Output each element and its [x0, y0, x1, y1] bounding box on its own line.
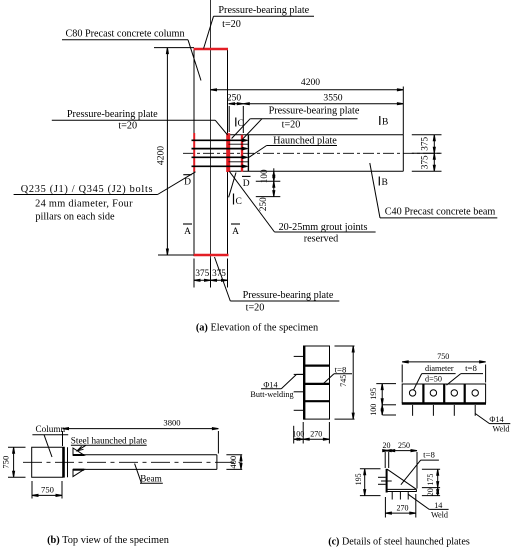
section mark C top	[235, 118, 237, 127]
svg-text:D: D	[184, 178, 191, 188]
(c3) triangle left edge (thick)	[386, 469, 388, 493]
svg-text:reserved: reserved	[304, 233, 339, 244]
(c2) dimension 195 left	[376, 383, 396, 385]
dimension 375 right upper	[433, 135, 435, 154]
svg-text:(a) Elevation of the specimen: (a) Elevation of the specimen	[196, 323, 319, 334]
(b) column square outline	[32, 447, 64, 477]
leader bottom label	[215, 257, 231, 301]
pressure-bearing plate top (red)	[194, 48, 229, 51]
svg-text:24 mm diameter, Four: 24 mm diameter, Four	[35, 198, 133, 209]
dimension 375 bottom left	[194, 279, 211, 281]
svg-text:pillars on each side: pillars on each side	[35, 211, 115, 222]
(c1) dimension 100 bottom	[293, 426, 295, 444]
(c1) leader t=8	[324, 374, 335, 384]
column left edge	[193, 49, 195, 255]
(b) leader steel haunched plate	[78, 445, 86, 450]
svg-text:Φ14: Φ14	[489, 415, 503, 424]
tick bottom left dim	[158, 254, 194, 256]
svg-text:375: 375	[195, 268, 209, 278]
(c3) triangle bottom flange (double line)	[386, 488, 416, 490]
(c3) triangle hypotenuse	[387, 469, 416, 489]
svg-text:20-25mm grout joints: 20-25mm grout joints	[279, 222, 368, 233]
section C cut stroke bottom (diagonal)	[229, 173, 236, 198]
(c3) dimension 20 right	[422, 495, 440, 497]
(b) beam centerline dash-dot	[23, 461, 240, 463]
column right edge	[227, 49, 229, 255]
svg-text:750: 750	[41, 485, 54, 495]
extension ticks right 375 dims	[412, 134, 442, 136]
svg-text:100: 100	[292, 430, 304, 439]
bolt anchor plate left (red)	[193, 133, 195, 172]
(b) haunched plate bottom (triangle)	[73, 469, 84, 476]
(b) dimension 3800	[62, 431, 64, 446]
section mark B bottom	[378, 177, 380, 186]
svg-text:195: 195	[369, 388, 378, 400]
section C cut stroke top (diagonal)	[243, 119, 262, 139]
svg-text:375: 375	[419, 137, 429, 151]
(c3) weld ticks left	[378, 476, 386, 478]
tick top left dim	[154, 47, 194, 49]
(c3) leader t=8	[401, 460, 421, 485]
svg-text:A: A	[232, 227, 239, 237]
(c3) weld legs below	[391, 492, 393, 500]
(b) leader column	[44, 435, 52, 457]
leader haunched plate	[249, 146, 267, 158]
svg-text:3800: 3800	[163, 418, 180, 428]
svg-text:Pressure-bearing plate: Pressure-bearing plate	[269, 105, 360, 116]
svg-text:Q235 (J1) / Q345 (J2) bolts: Q235 (J1) / Q345 (J2) bolts	[21, 184, 153, 195]
svg-text:20: 20	[383, 441, 391, 450]
leader bolts label	[158, 172, 196, 195]
(b) column end plate (thick)	[62, 447, 65, 478]
svg-text:diameter: diameter	[425, 364, 454, 373]
(b) beam bottom edge	[73, 468, 217, 470]
svg-text:B: B	[382, 178, 388, 188]
svg-text:100: 100	[259, 169, 269, 183]
(c2) bolt hole 4	[472, 390, 478, 396]
dimension 100 (below beam right of joint)	[256, 180, 280, 182]
svg-text:(b) Top view of the specimen: (b) Top view of the specimen	[47, 535, 170, 546]
svg-text:t=20: t=20	[246, 303, 265, 314]
(b) beam right end	[216, 455, 218, 470]
beam top edge	[228, 134, 403, 136]
svg-text:195: 195	[354, 473, 363, 485]
(c1) butt-weld line (thick left edge)	[303, 346, 305, 420]
svg-text:B: B	[382, 118, 388, 128]
(c1) plate divider 1	[304, 365, 329, 367]
dimension 4200 (left vertical)	[166, 48, 168, 255]
svg-text:250: 250	[258, 197, 268, 211]
beam centerline (dash-dot)	[183, 152, 442, 154]
(c2) divider 1	[422, 384, 424, 403]
grout joint line lower	[229, 161, 249, 163]
(b) dimension 400 right	[226, 454, 242, 456]
svg-text:C80 Precast concrete column: C80 Precast concrete column	[65, 28, 184, 39]
bolt rod 3	[192, 156, 247, 158]
svg-text:250: 250	[227, 92, 242, 103]
bolt rod 4	[192, 165, 247, 167]
svg-text:750: 750	[437, 352, 449, 361]
svg-text:375: 375	[419, 155, 429, 169]
section mark A right	[231, 223, 240, 225]
(b) haunched plate top (triangle)	[73, 448, 84, 455]
beam right end	[402, 135, 404, 172]
svg-text:C: C	[238, 119, 244, 129]
svg-text:Weld: Weld	[492, 424, 509, 433]
leader C80 label	[188, 40, 201, 81]
(c1) plate rectangle	[304, 346, 329, 419]
svg-text:100: 100	[369, 404, 378, 416]
svg-text:Pressure-bearing plate: Pressure-bearing plate	[243, 290, 334, 301]
svg-text:14: 14	[434, 501, 442, 510]
(c3) dimension 195 left	[360, 468, 381, 470]
(c1) leader butt-welding	[281, 374, 296, 388]
(b) dimension 750 left	[8, 446, 26, 448]
svg-text:Pressure-bearing plate: Pressure-bearing plate	[218, 5, 309, 16]
section mark D right	[242, 175, 251, 177]
(c2) leader t=8	[447, 374, 461, 386]
(c1) plate divider 2	[304, 383, 329, 385]
svg-text:A: A	[184, 227, 191, 237]
dimension 375 right lower	[433, 153, 435, 171]
leader C40 label	[370, 163, 380, 218]
(b) dimension 750 bottom	[31, 481, 33, 499]
svg-text:400: 400	[228, 456, 238, 469]
(b) beam top edge	[73, 454, 217, 456]
(c3) dimension 270 bottom	[384, 497, 386, 518]
svg-text:t=20: t=20	[222, 19, 241, 30]
(c2) leader diameter	[414, 374, 422, 390]
svg-text:4200: 4200	[156, 146, 167, 165]
dimension 4200 (top)	[211, 89, 404, 91]
dimension 375 bottom right	[211, 279, 228, 281]
beam bottom edge	[228, 170, 403, 172]
(c2) bolt hole 2	[430, 390, 436, 396]
svg-text:4200: 4200	[301, 77, 320, 88]
extension lines top dims	[228, 106, 230, 132]
svg-text:3550: 3550	[323, 93, 342, 104]
svg-text:Beam: Beam	[140, 474, 161, 484]
svg-text:C40 Precast concrete beam: C40 Precast concrete beam	[385, 206, 496, 217]
pressure-bearing plate on column face (red)	[226, 133, 230, 172]
pressure-bearing plate at beam end (red)	[241, 135, 243, 172]
dimension 3550 (top)	[243, 103, 403, 105]
pressure-bearing plate bottom (red)	[194, 254, 229, 257]
(c2) dimension 100 left	[383, 414, 397, 416]
svg-text:Weld: Weld	[431, 511, 448, 520]
(c1) dimension 270 bottom	[303, 438, 329, 440]
svg-text:d=50: d=50	[425, 375, 442, 384]
svg-text:745: 745	[339, 375, 348, 387]
svg-text:20: 20	[426, 488, 435, 496]
svg-text:Steel haunched plate: Steel haunched plate	[71, 436, 147, 446]
(c1) plate divider 3	[304, 400, 329, 402]
svg-text:Pressure-bearing plate: Pressure-bearing plate	[67, 109, 158, 120]
svg-text:270: 270	[310, 429, 322, 438]
(b) plate outer face line	[67, 447, 69, 477]
section mark D left	[183, 174, 191, 176]
haunched end plate (black)	[247, 135, 249, 172]
(b) leader beam	[135, 464, 142, 484]
svg-text:t=20: t=20	[118, 120, 137, 131]
leader left label	[215, 120, 227, 135]
(c3) leader 14 weld	[408, 494, 429, 509]
grout joint line upper	[229, 143, 249, 145]
(c2) weld line (thick bottom)	[402, 402, 486, 404]
svg-text:D: D	[243, 179, 250, 189]
dimension 250 (below beam right of joint)	[256, 196, 280, 198]
svg-text:t=20: t=20	[282, 120, 301, 131]
svg-text:(c) Details of steel haunched: (c) Details of steel haunched plates	[328, 537, 470, 548]
(c3) dimension 175 right	[422, 468, 440, 470]
section mark A left	[183, 223, 192, 225]
section mark B top	[379, 116, 381, 125]
svg-text:t=8: t=8	[465, 363, 477, 373]
svg-text:t=8: t=8	[335, 365, 347, 375]
bolt rod 2	[192, 148, 247, 150]
section mark C bottom	[233, 194, 235, 205]
(c2) leader weld	[475, 414, 489, 424]
column centerline	[210, 0, 212, 288]
svg-text:175: 175	[426, 474, 435, 486]
(c3) dimension 20/250 top	[384, 452, 386, 468]
extension lines bottom 375 dims	[193, 259, 195, 288]
svg-text:250: 250	[398, 441, 410, 450]
(c2) plate rectangle	[402, 384, 485, 403]
bolt rod 1	[192, 139, 247, 141]
(c1) dimension 745	[335, 345, 355, 347]
(c2) divider 2	[443, 384, 445, 403]
dimension 250 (top)	[229, 103, 244, 105]
(c2) dimension 750	[401, 365, 403, 383]
(c2) weld legs below	[412, 405, 414, 416]
leader middle label	[232, 119, 251, 139]
svg-text:C: C	[236, 197, 242, 207]
svg-text:t=8: t=8	[423, 450, 435, 460]
leader top label	[204, 16, 214, 48]
svg-text:750: 750	[1, 456, 11, 469]
(c1) weld ticks	[294, 355, 304, 357]
(c2) bolt hole 3	[451, 390, 457, 396]
leader grout label	[229, 171, 274, 232]
(c2) divider 3	[464, 384, 466, 403]
svg-text:270: 270	[397, 504, 409, 513]
svg-text:Column: Column	[35, 424, 65, 434]
(c2) bolt hole 1	[409, 390, 415, 396]
svg-text:Butt-welding: Butt-welding	[250, 390, 293, 399]
